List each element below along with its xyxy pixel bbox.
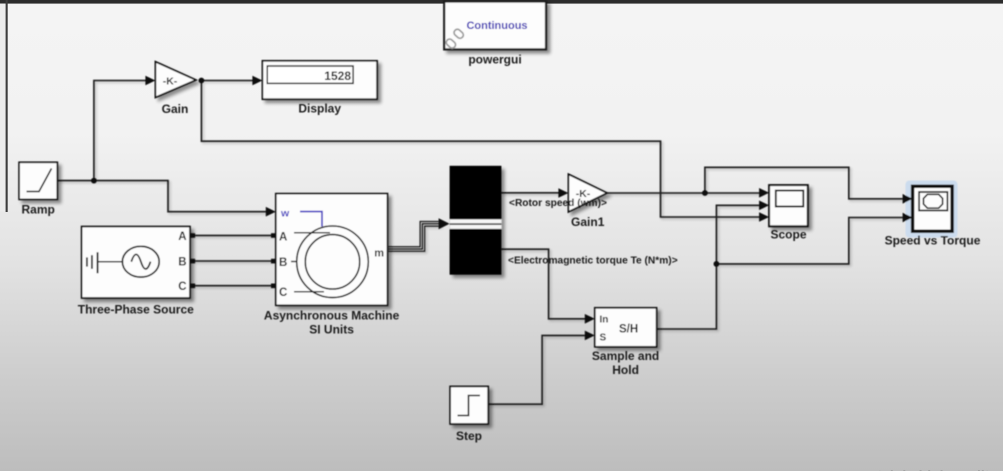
svg-text:C: C — [279, 287, 287, 299]
svg-text:Ramp: Ramp — [22, 203, 55, 217]
svg-text:Gain1: Gain1 — [571, 215, 605, 229]
svg-text:SI Units: SI Units — [309, 323, 354, 337]
svg-text:S/H: S/H — [619, 324, 638, 336]
svg-text:Display: Display — [298, 102, 341, 116]
svg-text:m: m — [374, 248, 384, 260]
svg-text:A: A — [178, 231, 186, 243]
svg-text:C: C — [178, 281, 186, 293]
svg-text:Speed vs Torque: Speed vs Torque — [885, 234, 981, 248]
svg-text:1528: 1528 — [324, 69, 351, 83]
svg-text:w: w — [280, 208, 290, 220]
svg-text:Asynchronous Machine: Asynchronous Machine — [264, 309, 400, 323]
svg-text:powergui: powergui — [468, 53, 521, 67]
svg-text:Hold: Hold — [612, 363, 639, 377]
svg-text:B: B — [279, 257, 287, 269]
svg-text:In: In — [600, 315, 609, 326]
svg-text:Sample and: Sample and — [592, 349, 659, 363]
svg-text:Continuous: Continuous — [466, 20, 527, 32]
svg-text:watch in high quality: watch in high quality — [858, 467, 998, 471]
svg-text:A: A — [279, 231, 287, 243]
svg-text:Three-Phase Source: Three-Phase Source — [78, 303, 194, 317]
svg-text:S: S — [600, 333, 607, 344]
svg-text:-K-: -K- — [163, 76, 178, 88]
svg-text:<Electromagnetic torque Te (N*: <Electromagnetic torque Te (N*m)> — [508, 256, 678, 267]
svg-text:Gain: Gain — [162, 102, 189, 116]
svg-text:Scope: Scope — [770, 228, 806, 242]
svg-text:B: B — [178, 256, 186, 268]
svg-text:Step: Step — [456, 429, 482, 443]
svg-text:<Rotor speed (wm)>: <Rotor speed (wm)> — [509, 198, 607, 209]
